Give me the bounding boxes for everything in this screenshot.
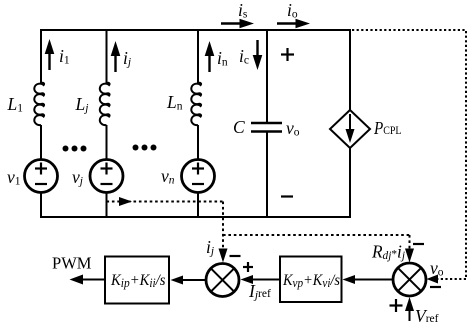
wire S1 to Kip block	[171, 276, 207, 285]
wire branch j lower	[106, 193, 108, 219]
svg-text:ic: ic	[239, 46, 249, 67]
arrow ij	[111, 41, 121, 72]
label minus output	[281, 195, 293, 197]
svg-text:Rdj*ij: Rdj*ij	[371, 242, 405, 263]
block Kvp+Kvi/s	[280, 257, 342, 303]
wire branch n middle	[197, 125, 199, 160]
source v1	[25, 160, 58, 193]
label plus output	[281, 48, 294, 61]
summing junction S1	[206, 264, 239, 297]
inductor Lj	[100, 83, 110, 125]
label minus vo right	[430, 286, 441, 288]
label minus ij	[230, 255, 241, 257]
wire dotted vo sense into summing	[427, 275, 467, 284]
current source PCPL	[330, 110, 370, 148]
svg-text:PCPL: PCPL	[373, 118, 401, 138]
svg-text:v1: v1	[7, 167, 21, 188]
svg-text:io: io	[287, 0, 298, 21]
arrow is	[221, 19, 254, 29]
wire branch 1 lower	[40, 193, 42, 219]
wire branch 1 middle	[40, 125, 42, 160]
arrow Vref	[405, 297, 414, 321]
wire branch n lower	[197, 193, 199, 219]
source vj	[90, 160, 123, 193]
wire dotted vo sense top	[352, 29, 466, 31]
inductor L1	[34, 83, 44, 125]
wire S2 to Kvp block	[343, 275, 394, 284]
ellipsis dots right	[133, 145, 157, 151]
summing junction S2	[393, 263, 426, 296]
wire dashed droop vertical	[405, 235, 414, 263]
wire dashed ij sense vertical	[219, 202, 228, 263]
svg-text:C: C	[233, 117, 245, 137]
ellipsis dots left	[63, 146, 87, 152]
label plus S1	[243, 262, 253, 272]
wire dashed ij sense horizontal	[107, 197, 224, 206]
svg-text:ij: ij	[123, 48, 131, 69]
svg-text:vj: vj	[72, 167, 83, 188]
svg-text:Ln: Ln	[166, 92, 183, 113]
svg-text:Kip+Kii/s: Kip+Kii/s	[110, 272, 165, 290]
svg-text:Lj: Lj	[75, 94, 89, 115]
label minus droop	[413, 243, 424, 245]
svg-text:i1: i1	[59, 46, 70, 67]
source vn	[182, 160, 215, 193]
wire bottom rail	[40, 216, 350, 218]
svg-text:in: in	[217, 48, 228, 69]
svg-text:PWM: PWM	[52, 254, 92, 273]
block Kip+Kii/s	[105, 257, 169, 304]
arrow ic	[253, 40, 263, 70]
wire capacitor branch upper	[266, 29, 268, 123]
arrow to PWM	[70, 275, 106, 285]
svg-text:ij: ij	[206, 237, 214, 258]
wire branch 1 upper	[40, 29, 42, 84]
svg-text:Vref: Vref	[415, 306, 439, 326]
capacitor C	[251, 123, 282, 132]
arrow i1	[45, 39, 55, 70]
wire branch j upper	[106, 29, 108, 84]
svg-text:Ijref: Ijref	[248, 281, 271, 302]
inductor Ln	[191, 83, 201, 125]
wire CPL branch lower	[349, 148, 351, 218]
wire dotted droop horizontal	[223, 234, 410, 236]
wire dotted vo sense right	[465, 31, 467, 279]
wire CPL branch upper	[349, 29, 351, 111]
wire branch j middle	[106, 125, 108, 160]
wire Kvp to S1	[241, 275, 281, 284]
svg-text:vo: vo	[430, 258, 444, 279]
svg-text:L1: L1	[7, 94, 24, 115]
wire top rail	[40, 29, 350, 31]
svg-text:vn: vn	[161, 166, 175, 187]
svg-text:is: is	[238, 0, 248, 21]
arrow in	[205, 41, 215, 72]
svg-text:vo: vo	[286, 118, 300, 139]
wire capacitor branch lower	[266, 132, 268, 219]
wire branch n upper	[197, 29, 199, 84]
label plus Vref	[390, 299, 403, 312]
arrow io	[277, 19, 310, 29]
svg-text:Kvp+Kvi/s: Kvp+Kvi/s	[282, 272, 340, 290]
